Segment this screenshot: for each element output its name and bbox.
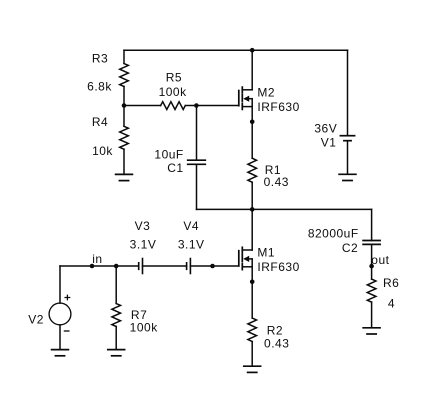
svg-text:V1: V1 [321,136,337,150]
capacitor C2 [363,240,380,242]
svg-text:4: 4 [388,297,395,311]
svg-text:V3: V3 [135,219,151,233]
svg-text:IRF630: IRF630 [257,260,299,274]
wire node to R5 [124,105,161,107]
svg-text:C1: C1 [167,161,183,175]
wire R3 top [123,50,125,63]
wire in line [60,265,139,267]
node in [90,264,95,269]
node V4/gate junction [210,264,215,269]
wire R2 to ground [251,342,253,367]
wire V2 to ground [59,325,61,350]
svg-text:R2: R2 [267,323,283,337]
wire middle rail [197,208,372,210]
resistor R1 [248,158,257,182]
svg-text:0.43: 0.43 [264,175,289,189]
wire C1 top [196,106,198,161]
ground under R4 [116,173,133,175]
ground under V1 [339,173,356,175]
svg-text:3.1V: 3.1V [178,238,205,252]
svg-text:C2: C2 [342,241,358,255]
wire V1 to ground [347,141,349,175]
svg-text:IRF630: IRF630 [257,100,299,114]
wire V4 to M1 gate [190,265,238,267]
resistor R5 [161,102,186,110]
svg-text:100k: 100k [159,85,188,99]
wire M2 source to R1 [251,107,253,159]
wire C2 top [371,209,373,240]
wire V1 top [347,50,349,136]
wire R3 bottom [123,87,125,106]
svg-text:36V: 36V [314,122,337,136]
node out [369,264,374,269]
resistor R2 [248,318,257,342]
wire top supply rail [124,49,348,51]
svg-text:R3: R3 [92,52,108,66]
ground under R6 [363,327,380,329]
wire R7 to ground [115,327,117,350]
svg-text:10uF: 10uF [154,147,183,161]
svg-text:M1: M1 [257,246,275,260]
svg-text:0.43: 0.43 [264,337,289,351]
node top rail junction [250,48,255,53]
svg-text:in: in [92,252,102,266]
source V2 [49,303,71,325]
wire R6 to ground [371,302,373,328]
minus sign V2 [64,330,69,332]
node R7 junction [114,264,119,269]
resistor R4 [120,126,129,149]
node middle rail junction [250,207,255,212]
svg-text:3.1V: 3.1V [130,238,157,252]
transistor M2 [239,87,252,109]
ground under R2 [244,365,261,367]
node M1 source [250,280,255,285]
battery V4 [186,263,188,270]
transistor M1 [239,247,252,269]
svg-text:10k: 10k [92,144,113,158]
plus sign V2 [65,295,70,300]
wire R4 top [123,106,125,127]
svg-text:M2: M2 [257,86,275,100]
wire M1 source to R2 [251,267,253,318]
wire C2 to R6 [371,244,373,279]
wire R4 to ground [123,149,125,174]
svg-text:R5: R5 [166,70,182,84]
svg-text:out: out [371,253,389,267]
svg-text:6.8k: 6.8k [87,80,112,94]
node M2 source [250,120,255,125]
svg-text:100k: 100k [130,321,159,335]
svg-text:R6: R6 [383,276,399,290]
node R5/C1/gate junction [194,103,199,108]
battery V3 [138,263,140,270]
wire V2 riser [59,266,61,303]
svg-text:82000uF: 82000uF [308,226,359,240]
wire V3 to V4 [143,265,187,267]
ground under V2 [52,349,69,351]
wire R1 bottom [251,182,253,209]
resistor R3 [120,64,129,87]
resistor R7 [112,304,121,327]
node R3/R4/R5 junction [122,103,127,108]
wire R7 top [115,266,117,304]
capacitor C1 [188,159,206,161]
wire R5 to M2 gate [185,105,239,107]
ground under R7 [108,349,125,351]
svg-text:R4: R4 [92,115,108,129]
svg-text:V4: V4 [183,219,199,233]
svg-text:V2: V2 [28,312,44,326]
wire C1 bottom [196,164,198,209]
resistor R6 [367,279,376,302]
wire M1 drain [251,209,253,250]
battery V1 [340,135,354,137]
wire M2 drain [251,50,253,90]
